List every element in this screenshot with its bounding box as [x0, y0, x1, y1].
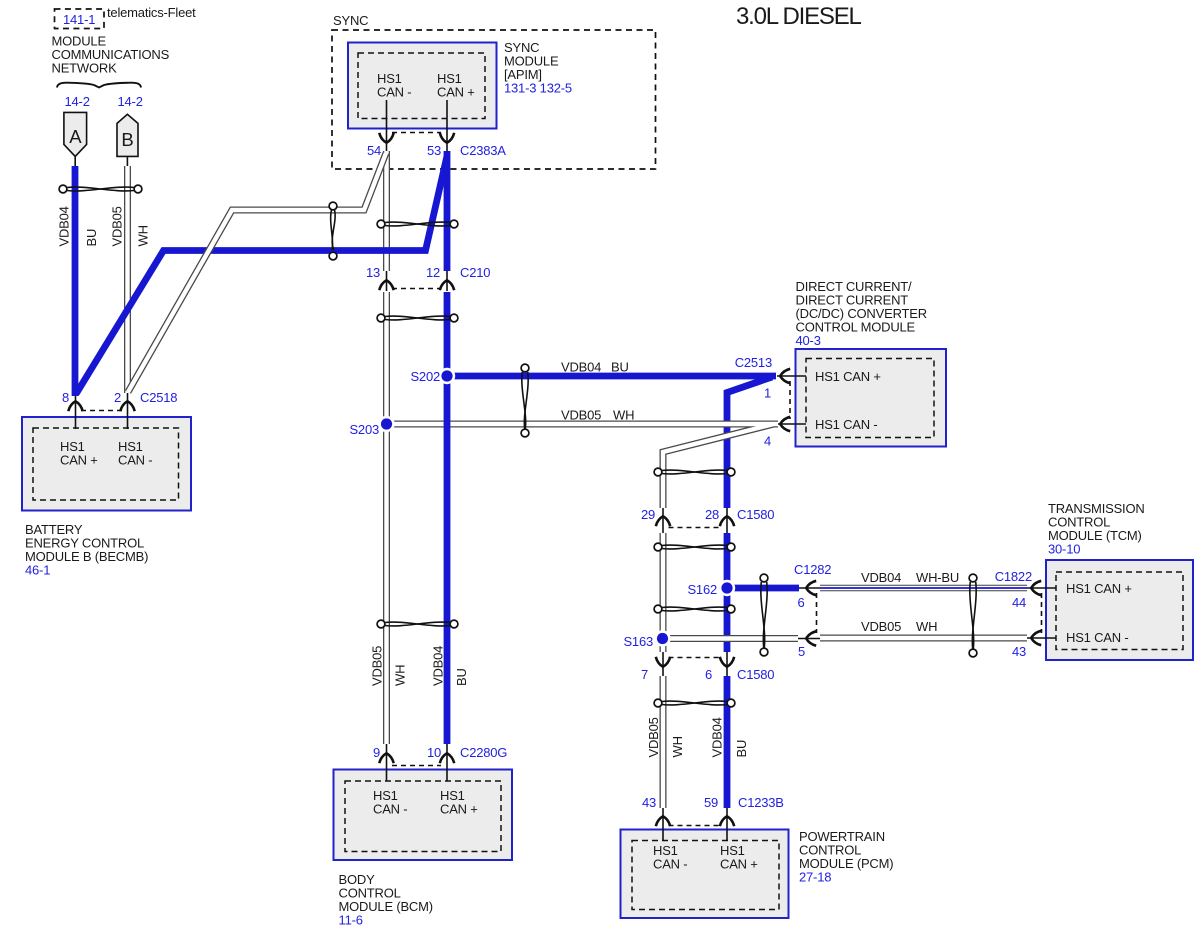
- svg-text:4: 4: [764, 434, 771, 449]
- splice dot S162: [719, 580, 735, 596]
- twisted pair symbol above C1580-29/28: [654, 468, 735, 476]
- svg-text:CAN +: CAN +: [440, 802, 478, 817]
- svg-text:WH: WH: [136, 225, 151, 246]
- svg-text:S162: S162: [687, 582, 717, 597]
- wire VDB05 WH horizontal S203 right part over blue, diagonal down to C1580 pin29: [640, 424, 778, 508]
- svg-text:7: 7: [641, 667, 648, 682]
- svg-text:VDB05: VDB05: [561, 408, 601, 423]
- svg-text:5: 5: [798, 644, 805, 659]
- arrow C1233B pin43: [656, 816, 670, 826]
- arrow C1233B pin59: [720, 816, 734, 826]
- svg-text:54: 54: [367, 143, 381, 158]
- BCM module box: [334, 770, 513, 861]
- svg-text:C1580: C1580: [737, 507, 774, 522]
- BECMB module box: [22, 417, 191, 511]
- arrow C2513 pin1: [780, 369, 790, 383]
- wire VDB04 BU horizontal S202 to DC/DC pin1: [447, 373, 776, 380]
- svg-text:C2518: C2518: [140, 390, 177, 405]
- twisted pair symbol below C2383A: [377, 220, 458, 228]
- svg-text:BU: BU: [734, 740, 749, 758]
- svg-text:VDB05: VDB05: [110, 206, 125, 246]
- dashed bracket C2513: [789, 381, 791, 419]
- svg-text:WH: WH: [670, 736, 685, 757]
- pin stub C1580-29: [662, 504, 664, 534]
- svg-text:VDB04: VDB04: [710, 717, 725, 757]
- twisted pair symbol vertical on upper-left pair: [329, 202, 337, 260]
- svg-text:CAN -: CAN -: [377, 85, 411, 100]
- twisted pair symbol between S162 and S163: [654, 605, 735, 613]
- svg-text:WH-BU: WH-BU: [916, 570, 959, 585]
- arrow C2280G pin9: [379, 753, 393, 763]
- arrow C1580 pin28: [720, 516, 734, 526]
- svg-text:VDB05: VDB05: [370, 646, 385, 686]
- svg-text:C1233B: C1233B: [738, 795, 784, 810]
- svg-text:13: 13: [366, 265, 380, 280]
- svg-text:27-18: 27-18: [799, 870, 831, 885]
- SYNC module APIM box: [348, 43, 497, 129]
- svg-text:SYNC: SYNC: [333, 13, 368, 28]
- pin stub C1282-6: [798, 587, 820, 589]
- svg-text:S203: S203: [349, 422, 379, 437]
- svg-text:46-1: 46-1: [25, 563, 50, 578]
- svg-text:9: 9: [373, 745, 380, 760]
- wire VDB05 WH run SYNC pin54 diagonal, horizontal, diagonal to BECMB pin2: [128, 153, 386, 392]
- svg-text:40-3: 40-3: [796, 333, 821, 348]
- pin stub C1233B-43: [662, 794, 664, 841]
- wire VDB05 WH horizontal to TCM pin43: [820, 635, 1027, 642]
- arrow C1580 pin29: [656, 516, 670, 526]
- connector pin B pentagon: [117, 114, 138, 156]
- svg-text:VDB04: VDB04: [861, 570, 901, 585]
- arrow C1580 pin7: [656, 657, 670, 667]
- pin stub C2518-8: [75, 392, 77, 429]
- twisted pair symbol below C1580-28: [654, 543, 735, 551]
- arrow C2518 pin8: [68, 401, 82, 411]
- svg-text:VDB04: VDB04: [561, 360, 601, 375]
- splice dot S163: [654, 630, 670, 646]
- arrow C210 pin12: [440, 280, 454, 290]
- TCM module box: [1046, 560, 1193, 660]
- svg-text:WH: WH: [916, 619, 937, 634]
- svg-text:CAN -: CAN -: [373, 802, 407, 817]
- wire VDB04 BU vertical C210 pin12 to BCM pin10: [444, 292, 451, 744]
- wire VDB04 BU vertical SYNC pin53 to C210 pin12: [444, 151, 451, 271]
- arrow C1822 pin44: [1031, 581, 1041, 595]
- pin stub C1282-5: [798, 638, 820, 640]
- twisted pair symbol above C2280G: [377, 620, 458, 628]
- stub connector B to wire: [126, 156, 128, 167]
- svg-text:C2280G: C2280G: [460, 745, 507, 760]
- arrow C1580 pin6: [720, 657, 734, 667]
- wire VDB04 WH-BU horizontal C1282 pin6 to TCM pin44: [820, 585, 1027, 592]
- svg-text:C1282: C1282: [794, 562, 831, 577]
- wire VDB04 BU bend from pin1 down right column: [727, 377, 772, 508]
- svg-text:29: 29: [641, 507, 655, 522]
- 141-1 dashed reference box: [55, 9, 105, 29]
- pin stub C1580-7: [662, 651, 664, 677]
- PCM module box: [621, 830, 789, 919]
- dashed bracket C1233B: [669, 825, 722, 827]
- svg-text:43: 43: [642, 795, 656, 810]
- pin stub C2383A-53: [446, 100, 448, 153]
- pin stub C1822-44: [1026, 587, 1056, 589]
- wire VDB04 BU right column C1580-28 to C1580-6: [724, 533, 731, 652]
- svg-text:CAN -: CAN -: [118, 453, 152, 468]
- svg-text:VDB04: VDB04: [431, 646, 446, 686]
- svg-text:HS1 CAN +: HS1 CAN +: [815, 369, 881, 384]
- twisted pair symbol vertical before C1822: [969, 574, 977, 657]
- svg-text:CAN +: CAN +: [720, 857, 758, 872]
- twisted pair symbol left pair: [59, 185, 142, 193]
- dashed bracket C2280G: [392, 765, 441, 767]
- twisted pair symbol vertical on S202/S203 runs: [521, 364, 529, 437]
- svg-text:C2513: C2513: [735, 355, 772, 370]
- wire VDB05 WH vertical SYNC column pin54 to C210 pin13: [383, 151, 390, 271]
- svg-text:CAN +: CAN +: [60, 453, 98, 468]
- svg-text:telematics-Fleet: telematics-Fleet: [107, 5, 196, 20]
- wire VDB05 WH vertical from connector B to pin 2: [124, 166, 131, 393]
- dashed bracket C1580-29/28: [669, 527, 722, 529]
- arrow C1822 pin43: [1031, 631, 1041, 645]
- svg-text:S163: S163: [623, 634, 653, 649]
- svg-text:6: 6: [705, 667, 712, 682]
- twisted pair symbol below C210: [377, 314, 458, 322]
- brace under MODULE COMMUNICATIONS NETWORK: [57, 83, 141, 88]
- arrow C2280G pin10: [440, 753, 454, 763]
- pin stub C2513-1: [777, 375, 806, 377]
- svg-text:44: 44: [1012, 595, 1026, 610]
- SYNC outer dashed box: [332, 30, 656, 169]
- dashed bracket C2518: [81, 410, 122, 412]
- pin stub C1822-43: [1026, 637, 1056, 639]
- svg-text:14-2: 14-2: [118, 94, 143, 109]
- svg-text:C210: C210: [460, 265, 490, 280]
- connector pin A pentagon: [64, 112, 87, 156]
- svg-text:59: 59: [704, 795, 718, 810]
- svg-text:A: A: [69, 126, 82, 147]
- svg-text:6: 6: [797, 595, 804, 610]
- dashed bracket C1580-7/6: [669, 657, 722, 659]
- arrow C1282 pin5: [806, 631, 816, 645]
- pin stub C1233B-59: [726, 794, 728, 841]
- svg-text:HS1 CAN +: HS1 CAN +: [1066, 581, 1132, 596]
- pin stub C210-12: [446, 267, 448, 291]
- arrow C2383A pin54: [379, 133, 393, 143]
- wire VDB04 BU horizontal S162 to C1282 pin6: [727, 585, 799, 592]
- svg-text:141-1: 141-1: [63, 12, 95, 27]
- wire VDB05 WH right column C1580-29 to S163: [660, 533, 667, 652]
- dashed bracket C210: [392, 288, 441, 290]
- svg-text:43: 43: [1012, 644, 1026, 659]
- svg-text:8: 8: [62, 390, 69, 405]
- wire VDB04 BU bus: pin8 diagonal, horizontal run, diagonal up to SYNC pin53: [76, 156, 447, 394]
- svg-text:BU: BU: [84, 229, 99, 247]
- svg-text:NETWORK: NETWORK: [52, 61, 118, 76]
- DC/DC converter control module box: [796, 349, 947, 447]
- wire VDB05 WH vertical C210 pin13 to BCM pin9: [383, 292, 390, 744]
- pin stub C2518-2: [127, 392, 129, 429]
- svg-text:B: B: [121, 129, 133, 150]
- wire VDB05 WH right column C1580-7 to PCM pin43: [660, 676, 667, 808]
- svg-text:WH: WH: [613, 408, 634, 423]
- svg-text:VDB05: VDB05: [646, 717, 661, 757]
- svg-text:53: 53: [427, 143, 441, 158]
- svg-text:28: 28: [705, 507, 719, 522]
- wire VDB04 BU vertical from connector A to pin 8: [72, 166, 79, 396]
- svg-text:11-6: 11-6: [339, 913, 363, 927]
- arrow C2518 pin2: [120, 401, 134, 411]
- svg-text:14-2: 14-2: [65, 94, 90, 109]
- pin stub C1580-6: [726, 651, 728, 677]
- svg-text:1: 1: [764, 386, 771, 401]
- pin stub C2280G-9: [386, 744, 388, 781]
- dashed bracket C1282: [816, 593, 818, 633]
- pin stub C2383A-54: [386, 100, 388, 153]
- svg-text:VDB05: VDB05: [861, 619, 901, 634]
- svg-text:3.0L DIESEL: 3.0L DIESEL: [736, 3, 862, 30]
- svg-text:C1580: C1580: [737, 667, 774, 682]
- svg-text:C2383A: C2383A: [460, 143, 506, 158]
- svg-text:HS1 CAN -: HS1 CAN -: [1066, 630, 1129, 645]
- svg-text:VDB04: VDB04: [57, 206, 72, 246]
- svg-text:BU: BU: [454, 668, 469, 686]
- wire VDB04 BU right column C1580-6 to PCM pin59: [724, 676, 731, 808]
- svg-text:2: 2: [114, 390, 121, 405]
- svg-text:BU: BU: [611, 360, 629, 375]
- svg-text:S202: S202: [410, 369, 440, 384]
- dashed bracket C2383A: [392, 132, 441, 134]
- splice dot S202: [439, 368, 455, 384]
- svg-text:C1822: C1822: [995, 569, 1032, 584]
- wire VDB05 WH horizontal from S203 (left under part): [387, 421, 661, 428]
- svg-text:10: 10: [427, 745, 441, 760]
- arrow C2383A pin53: [440, 133, 454, 143]
- arrow C2513 pin4: [780, 417, 790, 431]
- svg-text:CAN -: CAN -: [653, 857, 687, 872]
- svg-text:131-3 132-5: 131-3 132-5: [504, 81, 572, 96]
- pin stub C210-13: [386, 267, 388, 291]
- svg-text:30-10: 30-10: [1048, 542, 1080, 557]
- stub connector A to wire: [74, 156, 76, 167]
- dashed bracket C1822: [1041, 593, 1043, 633]
- wire VDB05 WH horizontal S163 to C1282 pin5: [663, 635, 799, 642]
- splice dot S203: [378, 416, 394, 432]
- arrow C210 pin13: [379, 280, 393, 290]
- pin stub C1580-28: [726, 504, 728, 534]
- svg-text:HS1 CAN -: HS1 CAN -: [815, 417, 878, 432]
- svg-text:CAN +: CAN +: [437, 85, 475, 100]
- twisted pair symbol vertical right of S162/S163: [760, 574, 768, 656]
- pin stub C2280G-10: [446, 744, 448, 781]
- svg-text:12: 12: [426, 265, 440, 280]
- arrow C1282 pin6: [806, 581, 816, 595]
- pin stub C2513-4: [777, 423, 806, 425]
- twisted pair symbol below C1580-7/6: [654, 699, 735, 707]
- svg-text:WH: WH: [393, 665, 408, 686]
